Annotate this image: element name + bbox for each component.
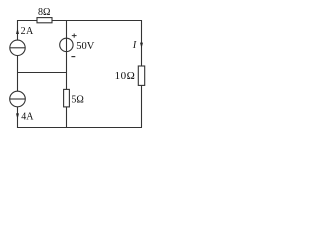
svg-text:4A: 4A <box>21 112 34 123</box>
svg-text:50V: 50V <box>76 41 95 52</box>
svg-text:8Ω: 8Ω <box>38 7 50 18</box>
arrow 2A up <box>16 28 19 34</box>
polarity minus <box>71 56 75 58</box>
resistor 8ohm box <box>37 18 52 23</box>
wire left middle segment <box>17 56 19 92</box>
wire middle bottom segment <box>66 107 68 128</box>
wire middle horizontal <box>17 72 67 74</box>
arrow 4A down <box>16 113 19 119</box>
svg-text:I: I <box>132 40 137 51</box>
svg-text:10Ω: 10Ω <box>115 70 136 82</box>
current source 2A circle <box>10 40 25 55</box>
wire top-right corner segment <box>52 21 142 67</box>
wire top-left corner segment <box>18 21 38 41</box>
current source 4A circle <box>10 91 26 107</box>
voltage source 50V circle <box>60 38 73 51</box>
svg-text:2A: 2A <box>21 26 34 37</box>
resistor 5ohm box <box>64 89 70 107</box>
svg-text:5Ω: 5Ω <box>71 94 83 105</box>
wire left bottom and bottom rail <box>18 107 143 128</box>
polarity plus <box>72 34 77 38</box>
arrow I down <box>140 43 143 49</box>
resistor 10ohm box <box>138 66 144 85</box>
wire middle branch <box>66 21 68 90</box>
wire right bottom segment <box>141 85 143 127</box>
